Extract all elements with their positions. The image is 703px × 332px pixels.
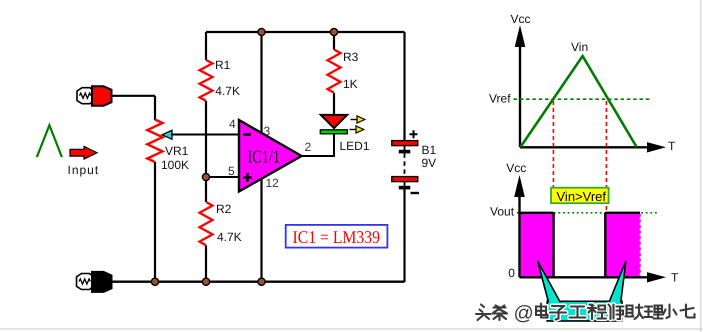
separator line bottom [0, 328, 703, 329]
svg-text:Input: Input [68, 163, 100, 177]
svg-text:4: 4 [229, 117, 236, 131]
svg-text:2: 2 [305, 140, 312, 154]
wire R1 rail top [205, 32, 207, 60]
svg-text:R3: R3 [343, 50, 359, 64]
label Vin>Vref [551, 188, 609, 204]
svg-text:Vcc: Vcc [506, 161, 526, 175]
waveform Vin [521, 56, 637, 147]
node R1/R2 junction [202, 173, 209, 180]
wire top terminal to rail [112, 95, 156, 97]
resistor R2 [200, 202, 213, 245]
svg-text:12: 12 [266, 176, 280, 190]
svg-text:4.7K: 4.7K [217, 230, 242, 244]
input arrow [70, 146, 97, 159]
svg-text:IC1/1: IC1/1 [248, 147, 281, 167]
svg-text:9V: 9V [422, 156, 437, 170]
svg-text:LED1: LED1 [340, 139, 370, 153]
Vref dashed level line [514, 98, 652, 100]
svg-text:R2: R2 [216, 202, 232, 216]
wire R2 to bottom rail [205, 246, 207, 283]
svg-text:T: T [671, 271, 679, 285]
input waveform symbol [37, 125, 62, 157]
svg-text:VR1: VR1 [165, 144, 189, 158]
svg-text:IC1 = LM339: IC1 = LM339 [293, 227, 381, 247]
svg-text:0: 0 [508, 266, 515, 280]
svg-text:Vin>Vref: Vin>Vref [557, 189, 607, 204]
red dashed marker left [552, 101, 554, 187]
svg-text:5: 5 [228, 164, 235, 178]
node R3 top [330, 28, 337, 35]
wire top rail [206, 31, 405, 33]
callout banner [538, 261, 626, 321]
svg-text:Vref: Vref [489, 91, 511, 105]
input terminal top (red plug) [77, 86, 112, 106]
svg-text:Vcc: Vcc [511, 12, 531, 26]
wire R1 to node [205, 101, 207, 202]
LED light arrow 2 [350, 126, 364, 133]
svg-text:R1: R1 [215, 58, 231, 72]
axis top graph [515, 25, 666, 153]
pulse 1 [520, 213, 554, 276]
wire wiper to pin 4 [171, 134, 239, 136]
LED light arrow 1 [351, 116, 365, 123]
wire left rail lower [154, 162, 156, 282]
node top rail / power [258, 28, 265, 35]
svg-text:3: 3 [264, 124, 271, 138]
node bottom R2 [202, 278, 209, 285]
svg-text:100K: 100K [161, 158, 189, 172]
potentiometer VR1 [147, 120, 172, 163]
label IC1 = LM339 [286, 225, 388, 248]
wire left rail upper [154, 96, 156, 120]
pulse 2 [605, 213, 640, 276]
wire bottom rail [112, 281, 405, 283]
svg-text:Vout: Vout [490, 205, 515, 219]
wire output pin2 [302, 132, 335, 156]
green dotted Vout level [517, 212, 659, 214]
resistor R1 [200, 60, 213, 101]
svg-text:1K: 1K [343, 77, 358, 91]
svg-text:@: @ [514, 303, 534, 325]
svg-text:Vin: Vin [571, 40, 588, 54]
wire power rail x=261.5 [260, 32, 262, 282]
svg-text:T: T [668, 139, 676, 153]
resistor R3 [328, 50, 341, 93]
input terminal bottom (black plug) [77, 272, 112, 292]
svg-text:4.7K: 4.7K [215, 84, 240, 98]
op-amp IC1/1 [239, 120, 302, 192]
node bottom left [151, 278, 158, 285]
right edge border line [700, 0, 701, 332]
axis bottom graph [514, 175, 666, 283]
LED LED1 [320, 93, 347, 134]
red dashed marker right [605, 101, 607, 212]
wire R3 top [333, 32, 335, 50]
svg-text:B1: B1 [422, 143, 437, 157]
node bottom power [258, 278, 265, 285]
battery B1 [392, 32, 419, 282]
wire pin 5 [206, 176, 239, 178]
